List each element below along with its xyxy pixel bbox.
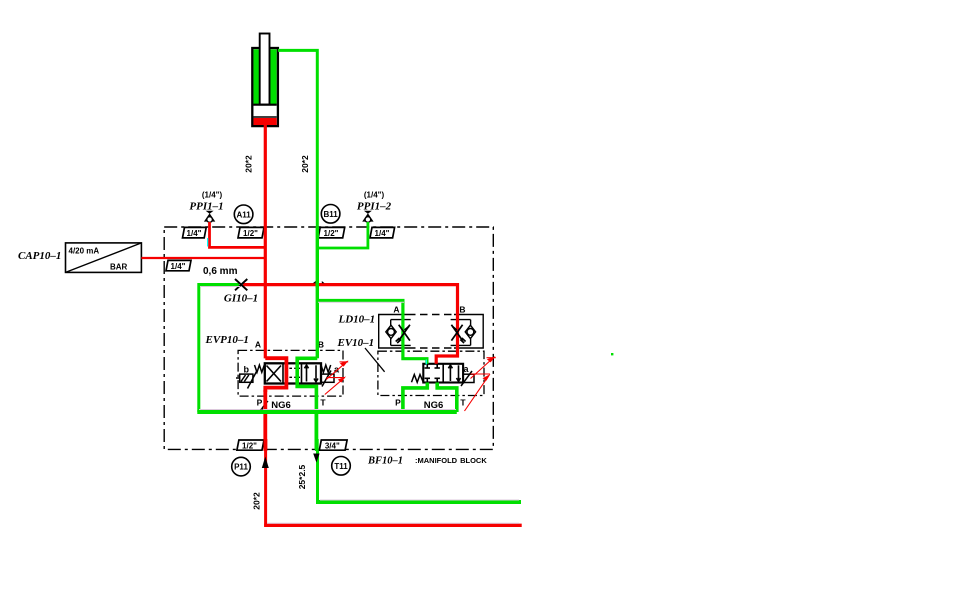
- flow arrow at P11 (up): [262, 457, 269, 469]
- port box 1/4" (CAP10-1): [166, 260, 191, 271]
- proportional solenoid a (EVP10-1): [321, 371, 334, 387]
- wire green EV10-1 T loop right: [437, 383, 457, 413]
- node B11: [321, 205, 340, 224]
- green speck: [611, 353, 613, 355]
- svg-text:20*2: 20*2: [244, 155, 254, 173]
- svg-text:LD10–1: LD10–1: [338, 314, 376, 326]
- svg-text:B: B: [459, 305, 465, 315]
- check valve block LD10-1 box: [379, 315, 484, 349]
- port box 1/4" (PP11-1): [183, 227, 207, 238]
- faint plot artifact lines: [199, 287, 519, 524]
- check valve B poppet (LD10-1): [465, 325, 475, 338]
- leader line EV10-1: [365, 348, 385, 372]
- node P11: [232, 457, 251, 476]
- svg-text:A: A: [255, 340, 261, 350]
- svg-text:B11: B11: [323, 210, 338, 219]
- svg-text:P: P: [257, 398, 263, 408]
- valve EV10-1 body: [423, 364, 463, 383]
- wire red jog through EVP10-1: [265, 358, 286, 392]
- svg-text:P11: P11: [234, 463, 248, 472]
- svg-text:4/20 mA: 4/20 mA: [69, 247, 100, 256]
- svg-text:b: b: [244, 365, 250, 375]
- cylinder CIL (actuator): [252, 34, 278, 127]
- proportional solenoid b (EVP10-1): [236, 372, 257, 389]
- svg-text:0,6 mm: 0,6 mm: [203, 266, 238, 277]
- wire green branch to LD10-1 port A: [317, 301, 427, 364]
- svg-text:PPI1–2: PPI1–2: [357, 201, 392, 213]
- node T11: [332, 457, 351, 476]
- svg-text:BF10–1: BF10–1: [367, 456, 403, 467]
- wire green B11 vertical: [316, 227, 319, 358]
- cyan artifact marks: [208, 238, 427, 365]
- red line crossing P11 port box: [263, 439, 267, 451]
- crossing hop marks: [260, 281, 325, 410]
- svg-text:T: T: [460, 398, 466, 408]
- svg-text:GI10–1: GI10–1: [224, 293, 258, 305]
- wire green PP11-2 branch: [317, 222, 368, 248]
- svg-text:A: A: [393, 305, 399, 315]
- svg-text:CAP10–1: CAP10–1: [18, 250, 61, 262]
- valve EV10-1 subplate box: [378, 351, 484, 395]
- svg-text:20*2: 20*2: [300, 155, 310, 173]
- svg-text:1/4": 1/4": [171, 262, 186, 271]
- valve EVP10-1 body: [265, 363, 321, 383]
- wire red bottom horizontal: [264, 524, 522, 527]
- svg-text:1/4": 1/4": [187, 229, 202, 238]
- check valve B loop (LD10-1): [451, 320, 471, 346]
- test point PP11-1: [204, 211, 215, 223]
- port box 1/2" (B11): [318, 227, 345, 238]
- svg-text:1/2": 1/2": [324, 229, 339, 238]
- svg-text:1/2": 1/2": [242, 442, 257, 451]
- wire red PP11-1 branch: [210, 222, 266, 247]
- svg-text:BAR: BAR: [110, 263, 128, 272]
- leader tick near P (EVP10-1): [262, 401, 268, 408]
- wire red CAP10-1 line: [141, 257, 265, 259]
- svg-text:(1/4"): (1/4"): [202, 191, 223, 200]
- svg-text:3/4": 3/4": [325, 442, 340, 451]
- pressure transducer CAP10-1: [66, 243, 142, 273]
- wire red main vertical from cylinder to valve A (20*2): [264, 122, 267, 358]
- wire green EV10-1 T loop left: [403, 383, 427, 413]
- svg-text:1/4": 1/4": [375, 229, 390, 238]
- throttle X of check valve B (LD10-1): [451, 325, 465, 343]
- wire green cylinder pipe to B11: [278, 50, 317, 227]
- svg-text:25*2.5: 25*2.5: [297, 464, 307, 489]
- svg-text:EV10–1: EV10–1: [337, 337, 375, 349]
- wire green jog through EVP10-1: [297, 358, 317, 412]
- throttle X of check valve A (LD10-1): [396, 325, 410, 343]
- svg-text:(1/4"): (1/4"): [364, 191, 385, 200]
- spring (EV10-1): [412, 375, 424, 383]
- wire green T11 down line (25*2.5): [314, 412, 318, 450]
- wire green tank gallery horizontal: [197, 410, 457, 414]
- crossing patch green over red at B11/orifice line: [316, 281, 319, 288]
- svg-text:T: T: [320, 398, 326, 408]
- port box 3/4" (T11): [319, 440, 347, 451]
- green line crossing T11 port box: [315, 439, 319, 451]
- test point PP11-2: [362, 211, 373, 223]
- port box 1/2" (A11): [238, 227, 264, 238]
- wire red P11 down line: [263, 390, 267, 450]
- check valve A poppet (LD10-1): [386, 325, 396, 338]
- svg-text:20*2: 20*2: [252, 492, 262, 510]
- port box 1/4" (PP11-2): [370, 227, 395, 238]
- solenoid a (EV10-1): [461, 371, 474, 386]
- red adjust arrow 2 (EV10-1): [465, 356, 496, 411]
- spring a-side (EVP10-1): [321, 365, 331, 372]
- svg-text:T11: T11: [334, 462, 348, 471]
- red adjust arrow 1 (EVP10-1): [325, 361, 349, 395]
- wire green bottom horizontal: [316, 500, 521, 504]
- svg-text:EVP10–1: EVP10–1: [205, 334, 249, 346]
- svg-text:PPI1–1: PPI1–1: [189, 201, 223, 213]
- flow arrow at T11 (down): [313, 454, 319, 463]
- check valve A loop (LD10-1): [391, 320, 411, 346]
- spring b-side (EVP10-1): [255, 365, 265, 372]
- valve EVP10-1 subplate box: [238, 350, 343, 396]
- manifold block border BF10-1: [164, 227, 493, 449]
- svg-text:P: P: [395, 398, 401, 408]
- orifice GI10-1: [235, 279, 247, 290]
- wire red orifice line to check valve B: [243, 285, 458, 364]
- port box 1/2" (P11): [237, 440, 264, 451]
- node A11: [234, 205, 253, 224]
- svg-text:1/2": 1/2": [243, 229, 258, 238]
- svg-text::MANIFOLD BLOCK: :MANIFOLD BLOCK: [415, 456, 487, 465]
- wire green tank rectangle (orifice to gallery): [199, 285, 239, 413]
- svg-text:A11: A11: [236, 210, 251, 219]
- svg-text:a: a: [464, 364, 470, 374]
